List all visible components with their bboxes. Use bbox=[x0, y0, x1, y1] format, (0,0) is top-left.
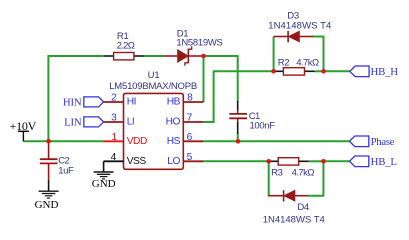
wire +10V to VDD node bbox=[23, 140, 104, 142]
wire HO net to R2 bbox=[213, 70, 274, 72]
svg-text:HB_L: HB_L bbox=[371, 156, 397, 168]
svg-text:8: 8 bbox=[187, 93, 193, 104]
resistor R3 bbox=[269, 158, 309, 165]
wire HB net vertical bbox=[203, 55, 205, 102]
wire D3 loop right vertical bbox=[323, 36, 325, 72]
wire D4 loop right vertical bbox=[322, 161, 324, 196]
svg-text:VSS: VSS bbox=[127, 156, 147, 167]
pin 4 VSS stub bbox=[104, 160, 124, 162]
pin 6 HS stub bbox=[183, 140, 203, 142]
pin 5 LO stub bbox=[183, 160, 203, 162]
svg-text:LIN: LIN bbox=[64, 116, 82, 128]
svg-text:2: 2 bbox=[111, 93, 117, 104]
svg-text:LM5109BMAX/NOPB: LM5109BMAX/NOPB bbox=[109, 81, 197, 92]
port HIN bbox=[63, 96, 104, 108]
pin 1 VDD stub bbox=[104, 140, 124, 142]
wire node to HB_H port bbox=[324, 70, 351, 72]
wire C1 upper vertical bbox=[237, 55, 239, 101]
svg-text:HI: HI bbox=[127, 97, 136, 108]
svg-text:VDD: VDD bbox=[127, 136, 147, 147]
pin 3 LI stub bbox=[104, 121, 124, 123]
svg-text:GND: GND bbox=[35, 199, 59, 211]
svg-text:Phase: Phase bbox=[371, 136, 395, 148]
wire top rail left segment bbox=[48, 55, 104, 57]
wire D4 loop left vertical bbox=[268, 161, 270, 196]
resistor R1 bbox=[104, 53, 144, 60]
capacitor C1 bbox=[229, 101, 247, 134]
svg-text:4.7kΩ: 4.7kΩ bbox=[292, 167, 315, 178]
svg-text:HB_H: HB_H bbox=[371, 66, 399, 78]
power port +10V bbox=[10, 119, 37, 142]
wire node to HB_L port bbox=[323, 160, 349, 162]
junction node R3 left bbox=[266, 159, 271, 164]
svg-text:GND: GND bbox=[92, 178, 116, 190]
diode D3 (1N4148WS T4) bbox=[274, 31, 313, 42]
wire R1 to D1 bbox=[144, 55, 164, 57]
junction node VDD/C2 bbox=[46, 139, 51, 144]
svg-text:LI: LI bbox=[127, 117, 135, 128]
svg-text:HS: HS bbox=[167, 136, 181, 147]
wire LO pin to R3 node bbox=[203, 160, 269, 162]
svg-text:R2: R2 bbox=[278, 57, 290, 68]
wire D4 right horizontal bbox=[307, 195, 324, 197]
diode D4 (1N4148WS T4) bbox=[268, 190, 307, 201]
svg-text:1N5819WS: 1N5819WS bbox=[176, 38, 222, 49]
svg-text:HIN: HIN bbox=[63, 96, 82, 108]
wire R2 right to node bbox=[315, 70, 324, 72]
svg-text:4.7kΩ: 4.7kΩ bbox=[296, 57, 319, 68]
svg-text:U1: U1 bbox=[148, 70, 160, 81]
svg-text:4: 4 bbox=[111, 152, 117, 163]
svg-text:1N4148WS T4: 1N4148WS T4 bbox=[263, 214, 325, 225]
wire D1 cathode node to C1 top bbox=[204, 55, 239, 57]
junction node C1/HS bbox=[236, 139, 241, 144]
ground symbol (VSS) bbox=[94, 161, 114, 179]
resistor R2 bbox=[274, 68, 315, 75]
port HB_H bbox=[350, 66, 398, 78]
port HB_L bbox=[350, 156, 397, 168]
junction node R3 right bbox=[321, 159, 326, 164]
diode D1 (schottky 1N5819WS) bbox=[164, 46, 204, 65]
pin 8 HB stub bbox=[183, 101, 204, 103]
port Phase bbox=[350, 136, 395, 148]
svg-text:LO: LO bbox=[167, 156, 180, 167]
svg-text:100nF: 100nF bbox=[250, 121, 276, 132]
svg-text:3: 3 bbox=[111, 113, 117, 124]
svg-text:1: 1 bbox=[111, 132, 117, 143]
capacitor C2 bbox=[40, 141, 58, 191]
junction node R2 right bbox=[321, 69, 326, 74]
svg-text:D4: D4 bbox=[297, 202, 309, 213]
svg-text:6: 6 bbox=[187, 132, 193, 143]
wire D3 right to loop bbox=[313, 36, 325, 38]
port LIN bbox=[64, 116, 103, 128]
wire C1 lower vertical bbox=[237, 133, 239, 141]
pin 2 HI stub bbox=[104, 101, 124, 103]
svg-text:7: 7 bbox=[187, 113, 193, 124]
wire HO net vertical bbox=[213, 71, 215, 122]
wire HO pin to corner bbox=[203, 121, 215, 123]
ground symbol (C2) bbox=[39, 191, 59, 198]
pin 7 HO stub bbox=[183, 121, 203, 123]
wire D3 loop left vertical bbox=[273, 37, 275, 72]
wire R3 right to node bbox=[309, 160, 324, 162]
svg-text:R3: R3 bbox=[271, 167, 283, 178]
svg-text:1uF: 1uF bbox=[58, 165, 74, 176]
svg-text:2.2Ω: 2.2Ω bbox=[117, 41, 135, 52]
wire HS net to Phase port bbox=[203, 140, 350, 142]
svg-text:5: 5 bbox=[187, 152, 193, 163]
wire left vertical rail bbox=[47, 55, 49, 141]
svg-text:HO: HO bbox=[166, 117, 181, 128]
svg-text:HB: HB bbox=[167, 97, 181, 108]
svg-text:1N4148WS T4: 1N4148WS T4 bbox=[268, 21, 331, 32]
junction node D1 cathode / HB bbox=[201, 54, 206, 59]
op IC U1 LM5109BMAX/NOPB body bbox=[124, 93, 184, 169]
junction node R2 left bbox=[271, 69, 276, 74]
